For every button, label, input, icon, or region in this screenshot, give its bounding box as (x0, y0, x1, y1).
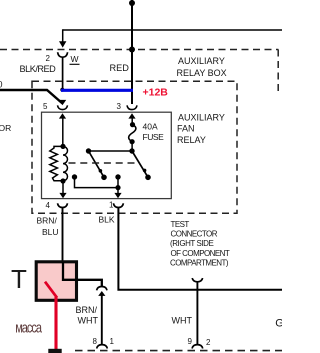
pin 3 connector: cup (127, 105, 137, 109)
fixed contact node right (115, 174, 120, 179)
svg-text:1: 1 (110, 337, 115, 346)
svg-text:OR: OR (0, 123, 11, 133)
svg-text:AUXILIARY: AUXILIARY (178, 56, 225, 66)
wire BRN/BLU pin4 down to T block (62, 208, 64, 264)
svg-text:W: W (71, 54, 79, 64)
svg-text:BLU: BLU (42, 227, 59, 237)
junction dot at top of feed (129, 0, 135, 6)
wire through T block to right (63, 262, 102, 287)
svg-text:BLK/RED: BLK/RED (20, 64, 57, 74)
svg-text:TEST: TEST (171, 220, 190, 229)
pin 5 connector: cup (58, 105, 68, 109)
svg-text:2: 2 (46, 54, 51, 63)
outer dashed box AUXILIARY RELAY BOX: top edge (0, 49, 278, 51)
fixed contact node left (72, 174, 77, 179)
red jumper inside T block (45, 282, 57, 298)
svg-text:BRN/: BRN/ (76, 305, 98, 315)
junction dot where feed crosses dashed edge (129, 47, 135, 53)
switch contact bar (89, 150, 133, 152)
svg-text:40A: 40A (143, 121, 158, 131)
wire coil to pin 4 with arrowhead down (62, 181, 64, 193)
blue wire jumper (61, 89, 133, 92)
svg-text:FAN: FAN (177, 124, 195, 134)
wire: drop from branch to connector 2 (62, 29, 64, 41)
connector on BRN/WHT wire: dome (97, 287, 107, 291)
wire BLK pin1 down then right (bus corner) (118, 208, 282, 290)
wire pin5 to coil (62, 117, 64, 147)
svg-text:5: 5 (43, 102, 48, 111)
mechanical linkage dashed (69, 162, 140, 164)
wire: horizontal branch y=28.5 to right edge (63, 29, 282, 31)
pin 5 connector: arrowhead down (59, 100, 66, 105)
svg-text:1: 1 (109, 200, 114, 209)
svg-text:WHT: WHT (172, 316, 193, 326)
svg-text:8: 8 (93, 337, 98, 346)
svg-text:4: 4 (46, 201, 51, 210)
switch arm 2 (132, 151, 148, 177)
bottom dashed component edge (75, 350, 282, 352)
svg-text:COMPARTMENT): COMPARTMENT) (170, 258, 229, 267)
svg-text:0: 0 (0, 80, 3, 90)
connector on BRN/WHT wire: arrowhead up (98, 291, 105, 296)
inner dashed box: relay assembly (32, 81, 237, 213)
connector 9-2 dome (192, 345, 203, 349)
svg-text:BRN/: BRN/ (37, 215, 58, 225)
relay coil (50, 144, 68, 184)
switch arm 1 (89, 151, 105, 177)
svg-text:+12B: +12B (143, 87, 169, 99)
svg-text:RELAY BOX: RELAY BOX (177, 68, 227, 78)
pin 1 connector cup (113, 203, 123, 207)
test connector tap cup (192, 278, 202, 282)
svg-text:G: G (275, 318, 282, 330)
svg-text:3: 3 (117, 102, 122, 111)
svg-text:RED: RED (110, 63, 130, 73)
svg-text:(RIGHT SIDE: (RIGHT SIDE (170, 239, 213, 248)
pin 4 connector cup (58, 203, 68, 207)
svg-text:FUSE: FUSE (143, 132, 165, 142)
wire: vertical feed RED x=132 from top (131, 0, 133, 104)
svg-text:RELAY: RELAY (177, 135, 206, 145)
arrowhead pin 1 inside box (114, 193, 121, 198)
svg-text:BLK: BLK (99, 215, 115, 225)
wire contacts to pin 1 (75, 177, 119, 188)
svg-text:2: 2 (206, 338, 211, 347)
wire BLK/RED from connector 2 down to junction (62, 57, 64, 89)
svg-text:CONNECTOR: CONNECTOR (171, 230, 218, 239)
svg-text:AUXILIARY: AUXILIARY (178, 112, 225, 122)
pin 5 connector: arrowhead up inside box (59, 113, 66, 118)
wire pin3 to fuse (131, 117, 133, 126)
svg-text:9: 9 (188, 337, 193, 346)
svg-text:масса: масса (15, 319, 43, 336)
arrowhead into connector 2 (59, 41, 66, 47)
connector pin 2 cup (58, 52, 68, 57)
fuse 40A (129, 122, 136, 144)
junction dot at blue jumper (60, 88, 64, 92)
svg-text:OF COMPONENT: OF COMPONENT (171, 249, 230, 258)
relay outline box (42, 112, 172, 198)
svg-text:WHT: WHT (78, 316, 99, 326)
outer dashed box: right edge (277, 50, 279, 93)
wire BRN/WHT down (101, 295, 103, 345)
red ground wire from T block (54, 297, 57, 349)
component T block (pink) (36, 262, 76, 301)
pin 3 connector: arrowhead up inside box (128, 113, 135, 118)
connector 8-1 dome (97, 345, 108, 349)
wire fuse to contact pivot (131, 142, 133, 151)
svg-text:T: T (11, 264, 27, 294)
wire from left edge to pin 5 (diagonal) (0, 90, 63, 104)
wire WHT down from tap (196, 282, 198, 345)
ground pad (48, 349, 61, 353)
